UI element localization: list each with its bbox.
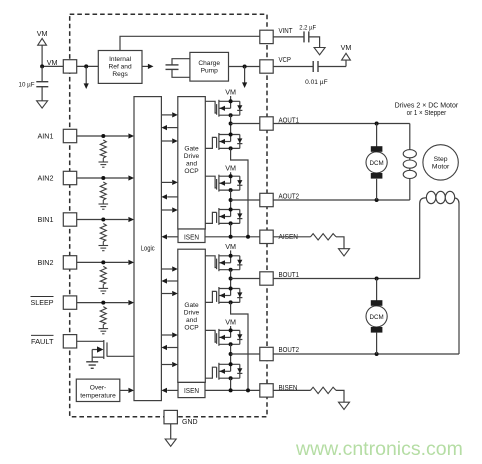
- block ISEN A: [178, 229, 205, 243]
- block Charge Pump: [190, 52, 229, 81]
- wire BOUT2 node to pin: [231, 353, 260, 355]
- pin BOUT1: [260, 272, 299, 285]
- pin VCP: [260, 57, 291, 73]
- svg-text:FAULT: FAULT: [31, 337, 54, 346]
- resistor R A sense: [311, 234, 337, 240]
- ground BIN1 pulldown: [99, 242, 109, 251]
- svg-text:VM: VM: [47, 58, 58, 67]
- svg-text:ISEN: ISEN: [184, 388, 199, 395]
- wire Q8 gate: [205, 367, 216, 378]
- wire nFAULT to fault transistor drain: [77, 340, 104, 342]
- motor DCM1: [366, 124, 387, 201]
- wire VM supply to VM pin: [42, 65, 63, 67]
- block Logic: [134, 97, 161, 401]
- wire Q3 gate: [205, 176, 216, 188]
- capacitor C1 10 uF: [19, 66, 49, 88]
- wire Q4 source to ISEN A rail: [230, 223, 232, 236]
- ground GND pin: [165, 424, 176, 447]
- node AOUT1 to DCM1: [375, 122, 379, 126]
- ISEN A rail: [205, 236, 260, 238]
- pin VM: [47, 58, 77, 73]
- svg-text:BIN1: BIN1: [38, 215, 54, 224]
- wire Q4 gate: [205, 212, 216, 223]
- wire Q6 gate: [205, 291, 216, 302]
- block Gate Drive and OCP A: [178, 97, 206, 229]
- VM supply symbol top left: [37, 29, 48, 66]
- motor DCM2: [366, 279, 387, 355]
- transistor Q9 open-drain fault output: [92, 340, 107, 362]
- wire sense resistor A to ground: [336, 237, 344, 249]
- pin AOUT1: [260, 117, 299, 130]
- ground below C1: [37, 87, 48, 108]
- arrow charge pump internal feed: [242, 67, 247, 89]
- svg-text:10 µF: 10 µF: [19, 81, 35, 88]
- arrow Gate Drive B OCP to Logic 1: [161, 278, 177, 283]
- svg-text:and: and: [186, 161, 197, 168]
- svg-text:VM: VM: [37, 29, 48, 38]
- arrow Logic to Gate Drive B high1: [161, 266, 177, 271]
- wire Q7 source to BOUT2 node: [230, 344, 232, 364]
- transistor Q8 BOUT2 low-side: [217, 362, 243, 380]
- svg-text:VM: VM: [225, 87, 236, 96]
- resistor R B sense: [311, 387, 337, 393]
- node AOUT1: [229, 122, 233, 126]
- svg-text:BIN2: BIN2: [38, 258, 54, 267]
- svg-text:Logic: Logic: [141, 246, 155, 253]
- wire BIN2 to Logic: [77, 260, 134, 265]
- pin BISEN: [260, 384, 298, 397]
- svg-text:VM: VM: [225, 164, 236, 173]
- VM rail above Q7: [225, 317, 236, 330]
- node ISEN B rail junction 2: [246, 388, 250, 392]
- ISEN B rail: [205, 389, 260, 391]
- wire BOUT1 to stepper coil B: [273, 278, 420, 280]
- transistor Q4 AOUT2 low-side: [217, 208, 243, 226]
- wire nSLEEP to Logic: [77, 300, 134, 305]
- svg-text:GND: GND: [182, 419, 198, 426]
- ground BISEN: [339, 402, 350, 409]
- node BIN2 pulldown junction: [101, 260, 105, 264]
- arrow Logic to Gate Drive A high2: [161, 180, 177, 185]
- svg-text:Drives 2 × DC Motor: Drives 2 × DC Motor: [395, 103, 459, 110]
- arrow Gate Drive B OCP to Logic 2: [161, 345, 177, 350]
- svg-text:Gate: Gate: [184, 302, 199, 309]
- stepper coil A: [403, 124, 416, 201]
- node AIN2 pulldown junction: [101, 176, 105, 180]
- wire BIN1 to Logic: [77, 217, 134, 222]
- ground nSLEEP pulldown: [99, 325, 109, 334]
- node BOUT2: [229, 352, 233, 356]
- svg-text:VINT: VINT: [279, 28, 294, 35]
- pin BIN1: [38, 213, 77, 226]
- arrow Logic to Gate Drive A high1: [161, 112, 177, 117]
- step motor: [423, 145, 458, 180]
- wire Q5 gate: [205, 256, 216, 268]
- resistor AIN2 pulldown: [100, 182, 106, 200]
- svg-text:Pump: Pump: [201, 68, 219, 75]
- annotation Drives 2 x DC Motor or 1 x Stepper: [395, 103, 459, 118]
- node ISEN A rail junction 2: [246, 235, 250, 239]
- node BIN1 pulldown junction: [101, 218, 105, 222]
- svg-text:OCP: OCP: [184, 168, 199, 175]
- resistor AIN1 pulldown: [100, 140, 106, 158]
- wire AISEN to sense resistor: [273, 236, 310, 238]
- node ISEN A rail junction 1: [229, 235, 233, 239]
- svg-text:VCP: VCP: [279, 57, 292, 64]
- svg-text:Motor: Motor: [432, 164, 450, 171]
- capacitor C3 0.01 uF: [273, 61, 327, 86]
- resistor BIN1 pulldown: [100, 224, 106, 242]
- svg-text:AIN2: AIN2: [38, 174, 54, 183]
- node BOUT1 to DCM2: [375, 277, 379, 281]
- svg-text:ISEN: ISEN: [184, 234, 199, 241]
- wire Q7 gate: [205, 330, 216, 342]
- transistor Q5 BOUT1 high-side: [217, 254, 243, 272]
- node BOUT2 to DCM2: [375, 352, 379, 356]
- svg-text:or 1 × Stepper: or 1 × Stepper: [407, 110, 447, 117]
- resistor BIN2 pulldown: [100, 266, 106, 284]
- arrow Logic to Gate Drive B low2: [161, 362, 177, 367]
- wire Q2 source to ISEN A rail: [231, 148, 248, 236]
- wire Q5 source to BOUT1 node: [230, 270, 232, 289]
- svg-text:Charge: Charge: [198, 60, 220, 67]
- ground Q9 source: [86, 362, 98, 369]
- arrow Logic to Gate Drive A low2: [161, 207, 177, 212]
- pin BIN2: [38, 256, 77, 269]
- svg-text:Gate: Gate: [184, 146, 199, 153]
- svg-text:BOUT2: BOUT2: [279, 347, 300, 354]
- wire BISEN to sense resistor: [273, 389, 310, 391]
- arrow Logic to Gate Drive B high2: [161, 332, 177, 337]
- arrow Gate Drive A OCP to Logic 1: [161, 125, 177, 130]
- wire AOUT2 node to pin: [231, 199, 260, 201]
- svg-text:VM: VM: [225, 317, 236, 326]
- ground AIN2 pulldown: [99, 200, 109, 209]
- transistor Q2 AOUT1 low-side: [217, 133, 243, 151]
- svg-text:and: and: [186, 317, 197, 324]
- svg-text:temperature: temperature: [80, 392, 116, 399]
- wire Q8 source to ISEN B rail: [230, 378, 232, 390]
- arrow Gate Drive A OCP to Logic 2: [161, 194, 177, 199]
- wire AIN2 to Logic: [77, 175, 134, 180]
- pin AOUT2: [260, 193, 299, 206]
- node ISEN B rail junction 1: [229, 388, 233, 392]
- pin nSLEEP: [31, 296, 77, 309]
- capacitor charge-pump flying cap: [166, 59, 190, 78]
- svg-text:OCP: OCP: [184, 325, 199, 332]
- svg-text:SLEEP: SLEEP: [31, 298, 54, 307]
- wire sense resistor B to ground: [336, 390, 344, 402]
- wire Internal Ref to VINT pin: [120, 36, 260, 50]
- transistor Q3 AOUT2 high-side: [217, 174, 243, 192]
- block ISEN B: [178, 382, 205, 397]
- VM supply symbol at C3: [318, 43, 351, 67]
- wire AOUT1 node to pin: [231, 123, 260, 125]
- transistor Q1 AOUT1 high-side: [217, 99, 243, 117]
- svg-text:www.cntronics.com: www.cntronics.com: [295, 438, 463, 460]
- wire AIN1 to Logic: [77, 133, 134, 138]
- VM rail above Q5: [225, 242, 236, 256]
- transistor Q6 BOUT1 low-side: [217, 287, 243, 305]
- arrow Over-temperature to Logic: [120, 388, 134, 393]
- svg-text:Over-: Over-: [90, 384, 106, 391]
- arrow VM internal feed: [84, 66, 89, 89]
- stepper coil B: [420, 191, 459, 354]
- wire Q9 gate to Logic: [107, 355, 134, 357]
- node AOUT2 to DCM1: [375, 198, 379, 202]
- wire Charge Pump to VCP pin: [229, 66, 260, 68]
- node charge pump output junction: [243, 65, 247, 69]
- wire Q3 source to AOUT2 node: [230, 190, 232, 209]
- wire Q1 gate: [205, 101, 216, 113]
- svg-text:Regs: Regs: [112, 71, 128, 78]
- wire BOUT1 node to pin: [231, 278, 260, 280]
- VM rail above Q3: [225, 164, 236, 177]
- arrow Internal Ref output: [142, 64, 154, 69]
- svg-text:2.2 µF: 2.2 µF: [299, 25, 316, 32]
- transistor Q7 BOUT2 high-side: [217, 328, 243, 346]
- block Internal Ref and Regs: [98, 51, 142, 84]
- svg-text:VM: VM: [225, 242, 236, 251]
- pin GND: [164, 410, 198, 426]
- node AIN1 pulldown junction: [101, 134, 105, 138]
- svg-text:Internal: Internal: [109, 56, 132, 63]
- arrow Logic to Gate Drive A low1: [161, 138, 177, 143]
- arrow ISEN B to Logic: [161, 388, 178, 393]
- svg-text:Drive: Drive: [184, 153, 200, 160]
- resistor nSLEEP pulldown: [100, 307, 106, 325]
- svg-text:0.01 µF: 0.01 µF: [305, 79, 328, 86]
- svg-text:DCM: DCM: [370, 160, 384, 167]
- svg-text:VM: VM: [341, 43, 352, 52]
- svg-text:Ref and: Ref and: [109, 64, 132, 71]
- pin BOUT2: [260, 347, 299, 361]
- pin nFAULT: [31, 335, 77, 348]
- node BOUT1: [229, 277, 233, 281]
- capacitor C2 2.2 uF: [273, 25, 316, 43]
- arrow Logic to Gate Drive B low1: [161, 291, 177, 296]
- arrow ISEN A to Logic: [161, 234, 178, 239]
- svg-text:Step: Step: [434, 156, 448, 163]
- device boundary dashed outline: [70, 14, 267, 417]
- ground AIN1 pulldown: [99, 158, 109, 167]
- wire Q6 source to ISEN B rail: [231, 302, 248, 390]
- node VM internal junction: [84, 64, 88, 68]
- block Gate Drive and OCP B: [178, 249, 206, 382]
- pin AISEN: [260, 230, 298, 243]
- block Over-temperature: [76, 379, 120, 401]
- node VM input junction: [40, 64, 44, 68]
- wire Q1 source to AOUT1 node: [230, 115, 232, 134]
- wire AOUT2 to stepper coil A: [273, 199, 410, 201]
- ground below C2: [309, 37, 325, 55]
- pin AIN2: [38, 171, 77, 184]
- wire VM pin to Internal Ref: [77, 65, 99, 67]
- VM rail above Q1: [225, 87, 236, 101]
- svg-text:DCM: DCM: [370, 314, 384, 321]
- ground BIN2 pulldown: [99, 284, 109, 293]
- ground AISEN: [339, 249, 350, 256]
- node AOUT2: [229, 198, 233, 202]
- svg-text:Drive: Drive: [184, 310, 200, 317]
- node nSLEEP pulldown junction: [101, 301, 105, 305]
- pin VINT: [260, 28, 293, 44]
- svg-text:AIN1: AIN1: [38, 132, 54, 141]
- wire Q2 gate: [205, 137, 216, 148]
- pin AIN1: [38, 129, 77, 142]
- wire BOUT2 to stepper coil B: [273, 353, 459, 355]
- wire AOUT1 to stepper coil A: [273, 123, 410, 125]
